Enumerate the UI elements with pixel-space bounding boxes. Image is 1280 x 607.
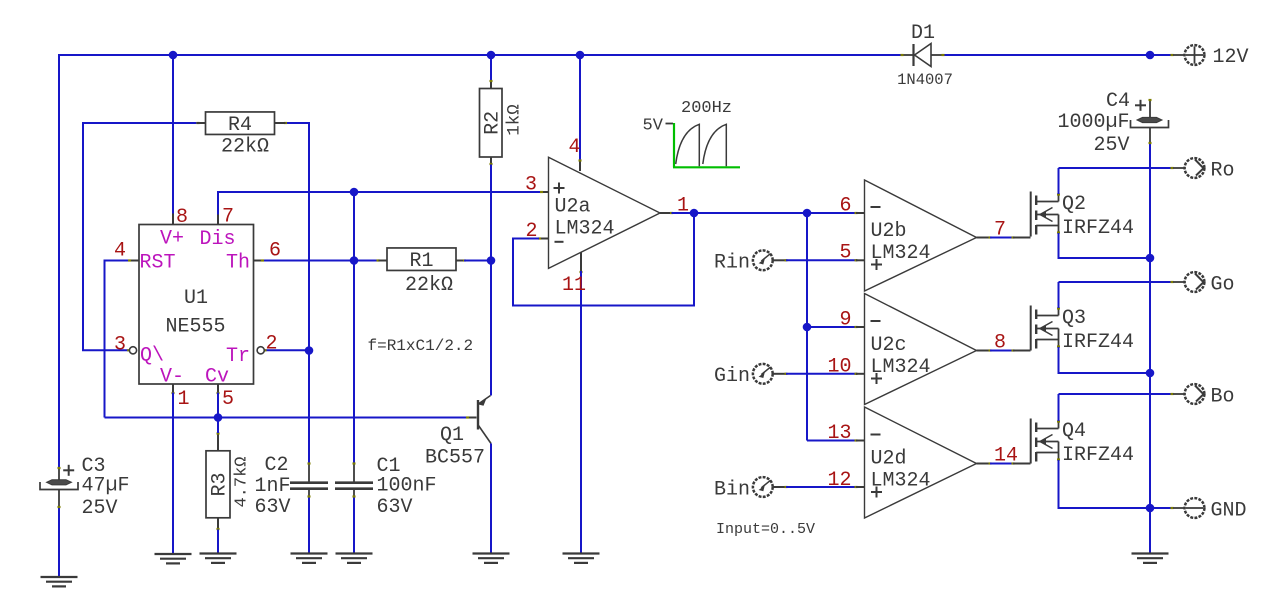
value label 1000uF xyxy=(1058,111,1130,134)
terminal GND xyxy=(1173,498,1204,518)
svg-text:2: 2 xyxy=(526,220,538,243)
node junction output / inverting bus xyxy=(803,209,812,218)
svg-text:LM324: LM324 xyxy=(555,218,615,241)
svg-text:7: 7 xyxy=(222,206,234,229)
label C4 plus xyxy=(1135,100,1146,111)
pin number 6 xyxy=(269,240,281,263)
svg-text:5V: 5V xyxy=(643,117,664,136)
pin number 5 (U2b+) xyxy=(839,242,851,265)
value label C1 63V xyxy=(377,496,413,519)
node junction Q3 source on rail xyxy=(1146,369,1155,378)
svg-text:4: 4 xyxy=(114,240,126,263)
terminal Go xyxy=(1173,272,1204,292)
wire left supply drop to C3 xyxy=(58,54,60,468)
wire C2 to ground xyxy=(308,497,310,553)
svg-text:Q3: Q3 xyxy=(1062,307,1086,330)
value label R2 1k xyxy=(505,104,525,136)
resistor R2 xyxy=(480,89,505,158)
svg-text:5: 5 xyxy=(222,388,234,411)
label U2b LM324 xyxy=(871,242,931,265)
label 12V xyxy=(1213,46,1249,69)
wire RST pin lead xyxy=(105,259,139,261)
value label 1N4007 xyxy=(897,71,953,89)
op-amp U2c triangle xyxy=(865,294,977,405)
wire Bin to op-amp + input xyxy=(773,486,865,488)
label C3 xyxy=(82,455,106,478)
wire 12V terminal stub xyxy=(1171,54,1174,56)
svg-text:3: 3 xyxy=(525,174,537,197)
wire R2 top from rail xyxy=(490,55,493,89)
value label R3 4.7k xyxy=(233,456,252,507)
svg-text:9: 9 xyxy=(839,309,851,332)
node junction Th / R1 left / C1 xyxy=(350,256,359,265)
wire U2d output to MOSFET gate xyxy=(977,462,1031,464)
svg-text:Dis: Dis xyxy=(200,228,236,251)
value label 1nF xyxy=(255,475,291,498)
value label R1 22k xyxy=(405,274,453,297)
resistor R3 xyxy=(206,418,232,553)
pin number 14 (U2d out) xyxy=(994,445,1018,468)
svg-text:1: 1 xyxy=(677,195,689,218)
label Q1 xyxy=(440,424,464,447)
node junction C4 branch on 12V rail xyxy=(1146,51,1155,60)
svg-text:63V: 63V xyxy=(255,496,291,519)
wire U2a pin11 to ground xyxy=(580,253,583,554)
pin name Q-bar xyxy=(140,344,164,367)
svg-text:Gin: Gin xyxy=(714,365,750,388)
IC U1 NE555 body xyxy=(139,225,254,385)
terminal Bin xyxy=(753,477,773,497)
pin number 4 (U2a V+) xyxy=(569,136,581,159)
label U2d xyxy=(871,448,907,471)
wire U2a pin2 lead xyxy=(538,237,548,239)
svg-text:C2: C2 xyxy=(265,454,289,477)
wire emitter node down to Q1 xyxy=(490,261,492,396)
resistor R1 xyxy=(387,248,456,273)
capacitor C4 1000uF xyxy=(1131,99,1169,144)
terminal Rin xyxy=(753,250,773,270)
pin number 8 (U2c out) xyxy=(994,332,1006,355)
wire R4 right to Tr node xyxy=(284,122,309,351)
label NE555 xyxy=(165,316,225,339)
svg-text:Q2: Q2 xyxy=(1062,193,1086,216)
svg-text:3: 3 xyxy=(114,334,126,357)
label U2c xyxy=(871,334,907,357)
wire C1 to ground xyxy=(353,497,355,553)
wire pin5 Cv to control row xyxy=(217,384,220,418)
wire Gin to op-amp + input xyxy=(773,373,865,375)
label Q2 xyxy=(1062,193,1086,216)
svg-text:63V: 63V xyxy=(377,496,413,519)
svg-text:200Hz: 200Hz xyxy=(681,99,732,118)
node junction R1 right / R2 / Q1 emitter xyxy=(487,256,496,265)
wire Q3 source xyxy=(1057,340,1150,374)
value label R4 22k xyxy=(221,136,269,159)
node junction Q2 source on rail xyxy=(1146,254,1155,263)
pin number 5 xyxy=(222,388,234,411)
svg-text:25V: 25V xyxy=(1094,134,1130,157)
op-amp U2b plus sign xyxy=(871,259,882,270)
svg-text:GND: GND xyxy=(1211,500,1247,523)
pin name V+ xyxy=(160,227,184,250)
svg-text:6: 6 xyxy=(839,195,851,218)
svg-text:Go: Go xyxy=(1211,274,1235,297)
svg-text:BC557: BC557 xyxy=(425,447,485,470)
wire R1 left lead xyxy=(379,260,387,262)
value label 47uF xyxy=(82,475,130,498)
wire pin8 V+ from rail xyxy=(172,55,174,224)
svg-text:22kΩ: 22kΩ xyxy=(405,274,453,297)
svg-text:Q4: Q4 xyxy=(1062,420,1086,443)
node junction Q4 source / GND terminal xyxy=(1146,504,1155,513)
label Q3 xyxy=(1062,307,1086,330)
pin circle Q-bar output xyxy=(129,347,136,354)
svg-text:U2a: U2a xyxy=(555,196,591,219)
svg-text:U2d: U2d xyxy=(871,448,907,471)
wire ground rail C4 to GND xyxy=(1149,143,1151,553)
terminal Ro xyxy=(1173,158,1204,178)
svg-text:Bin: Bin xyxy=(714,479,750,502)
wire Q4 drain xyxy=(1057,394,1060,429)
transistor Q1 BC557 xyxy=(478,396,492,444)
pin circle Tr input xyxy=(257,347,264,354)
svg-text:R3: R3 xyxy=(209,472,232,496)
op-amp U2a plus sign xyxy=(554,183,565,194)
pin name V- xyxy=(160,365,184,388)
ground under U1 pin1 xyxy=(155,554,192,563)
wire Q4 source xyxy=(1057,453,1150,509)
node junction bus to pin9 xyxy=(803,323,812,332)
pin number 9 (U2c-) xyxy=(839,309,851,332)
wire R4 left to Q-bar feedback xyxy=(83,122,200,352)
node junction U2a pin4 branch on 12V rail xyxy=(576,51,585,60)
node junction pin8 branch on 12V rail xyxy=(169,51,178,60)
svg-text:IRFZ44: IRFZ44 xyxy=(1062,217,1134,240)
wire Q3 drain xyxy=(1057,282,1060,316)
svg-text:Tr: Tr xyxy=(226,345,250,368)
node junction Tr / R4 / C2 xyxy=(305,346,314,355)
wire Q2 source xyxy=(1057,226,1150,259)
pin name Th xyxy=(226,251,250,274)
wire C1 branch down xyxy=(353,261,355,464)
wire U2b output to MOSFET gate xyxy=(977,236,1031,238)
wire U2c output to MOSFET gate xyxy=(977,349,1031,351)
capacitor C1 100nF xyxy=(335,462,373,497)
wire Q1 collector to ground xyxy=(490,444,492,554)
capacitor C3 47uF xyxy=(40,467,78,508)
op-amp U2b minus sign xyxy=(871,206,881,208)
node junction R2 branch on 12V rail xyxy=(487,51,496,60)
pin number 1 (U2a out) xyxy=(677,195,689,218)
label U2a xyxy=(555,196,591,219)
value label C2 63V xyxy=(255,496,291,519)
label Gin xyxy=(714,365,750,388)
pin number 4 xyxy=(114,240,126,263)
resistor R4 xyxy=(197,112,286,137)
value label 100nF xyxy=(377,475,437,498)
pin name Tr xyxy=(226,345,250,368)
label Rin xyxy=(714,252,750,275)
wire RST down to control row xyxy=(104,260,106,418)
wire C3 to ground xyxy=(58,508,60,577)
svg-text:6: 6 xyxy=(269,240,281,263)
note input range xyxy=(716,521,815,538)
pin number 7 (U2b out) xyxy=(994,219,1006,242)
svg-text:1nF: 1nF xyxy=(255,475,291,498)
op-amp U2d minus sign xyxy=(871,434,881,436)
wire Ro row xyxy=(1059,167,1174,169)
wire U2a pin4 from rail xyxy=(579,55,582,171)
ground under C2 xyxy=(291,554,328,563)
wire top 12V rail left of D1 xyxy=(59,54,901,56)
svg-text:U1: U1 xyxy=(184,287,208,310)
svg-text:Input=0..5V: Input=0..5V xyxy=(716,521,815,538)
svg-text:RST: RST xyxy=(140,251,176,274)
label D1 xyxy=(911,22,935,45)
pin number 3 xyxy=(114,334,126,357)
pin number 8 xyxy=(176,206,188,229)
wire pin1 V- to ground xyxy=(172,384,175,553)
label U1 xyxy=(184,287,208,310)
pin number 2 (Tr) xyxy=(266,333,278,356)
wire bus to U2d pin13 xyxy=(807,439,864,441)
svg-text:Bo: Bo xyxy=(1211,386,1235,409)
wire branch Dis row to Th row xyxy=(353,192,355,261)
svg-text:R2: R2 xyxy=(482,111,505,135)
waveform axis xyxy=(666,123,741,167)
svg-text:LM324: LM324 xyxy=(871,356,931,379)
label C2 xyxy=(265,454,289,477)
svg-text:1N4007: 1N4007 xyxy=(897,71,953,89)
pin number 6 (U2b-) xyxy=(839,195,851,218)
terminal Bo xyxy=(1173,384,1204,404)
svg-text:2: 2 xyxy=(266,333,278,356)
label U2b xyxy=(871,220,907,243)
terminal Gin xyxy=(753,364,773,384)
wire Bo row xyxy=(1059,393,1174,395)
label BC557 xyxy=(425,447,485,470)
node junction Dis row to R1 branch xyxy=(350,188,359,197)
ground under R3 xyxy=(200,554,237,563)
label C1 xyxy=(377,455,401,478)
svg-text:47µF: 47µF xyxy=(82,475,130,498)
wire U2a output xyxy=(660,212,864,214)
waveform sawtooth xyxy=(676,124,727,166)
op-amp U2d triangle xyxy=(865,407,977,518)
pin number 7 xyxy=(222,206,234,229)
op-amp U2c plus sign xyxy=(871,373,882,384)
svg-text:10: 10 xyxy=(827,356,851,379)
svg-text:D1: D1 xyxy=(911,22,935,45)
transistor Q2 IRFZ44 symbol xyxy=(1031,192,1059,237)
svg-text:R1: R1 xyxy=(409,250,433,273)
label 5V xyxy=(643,117,664,136)
svg-text:IRFZ44: IRFZ44 xyxy=(1062,331,1134,354)
pin number 10 (U2c+) xyxy=(827,356,851,379)
svg-text:Q1: Q1 xyxy=(440,424,464,447)
svg-text:1kΩ: 1kΩ xyxy=(505,104,525,136)
diode D1 1N4007 xyxy=(901,44,945,67)
wire Tr node down to C2 xyxy=(308,351,310,464)
ground under U2a pin11 xyxy=(563,554,600,563)
wire pin7 Dis up and right to U2a pin3 xyxy=(218,191,548,224)
svg-text:f=R1xC1/2.2: f=R1xC1/2.2 xyxy=(368,337,474,355)
svg-text:12: 12 xyxy=(827,469,851,492)
wire control row RST-Cv-Q1 base xyxy=(105,416,477,418)
wire R2 bottom to emitter node xyxy=(490,157,493,261)
wire inverting input bus down xyxy=(806,213,808,441)
wire top 12V rail right of D1 xyxy=(944,54,1172,56)
label Bin xyxy=(714,479,750,502)
svg-text:13: 13 xyxy=(827,422,851,445)
svg-text:4.7kΩ: 4.7kΩ xyxy=(233,456,252,507)
pin number 13 (U2d-) xyxy=(827,422,851,445)
wire Th pin6 to R1 left xyxy=(254,259,380,261)
svg-text:U2b: U2b xyxy=(871,220,907,243)
value label C4 25V xyxy=(1094,134,1130,157)
wire Q2 drain xyxy=(1057,168,1060,202)
svg-text:12V: 12V xyxy=(1213,46,1249,69)
op-amp U2c minus sign xyxy=(871,320,881,322)
svg-text:R4: R4 xyxy=(228,114,252,137)
svg-text:U2c: U2c xyxy=(871,334,907,357)
svg-text:LM324: LM324 xyxy=(871,242,931,265)
pin number 1 xyxy=(178,388,190,411)
label C4 xyxy=(1106,90,1130,113)
wire bus to U2c pin9 xyxy=(807,326,864,328)
pin number 3 (U2a+) xyxy=(525,174,537,197)
op-amp U2a minus sign xyxy=(555,241,564,243)
pin number 2 (U2a-) xyxy=(526,220,538,243)
terminal 12V xyxy=(1173,45,1204,65)
svg-text:Ro: Ro xyxy=(1211,160,1235,183)
label Q4 IRFZ44 xyxy=(1062,444,1134,467)
svg-text:8: 8 xyxy=(176,206,188,229)
transistor Q4 IRFZ44 symbol xyxy=(1031,419,1059,464)
svg-text:5: 5 xyxy=(839,242,851,265)
value label C3 25V xyxy=(82,497,118,520)
pin number 12 (U2d+) xyxy=(827,469,851,492)
pin name RST xyxy=(140,251,176,274)
label U2d LM324 xyxy=(871,470,931,493)
wire Go row xyxy=(1059,281,1174,283)
svg-text:V+: V+ xyxy=(160,227,184,250)
svg-text:C4: C4 xyxy=(1106,90,1130,113)
label GND xyxy=(1211,500,1247,523)
svg-text:IRFZ44: IRFZ44 xyxy=(1062,444,1134,467)
note formula xyxy=(368,337,474,355)
op-amp U2d plus sign xyxy=(871,487,882,498)
pin name Cv xyxy=(205,365,229,388)
wire Rin to op-amp + input xyxy=(773,259,865,261)
op-amp U2a triangle xyxy=(549,157,661,268)
svg-text:1000µF: 1000µF xyxy=(1058,111,1130,134)
svg-text:Q\: Q\ xyxy=(140,344,164,367)
pin number 11 (U2a V-) xyxy=(562,274,586,297)
wire GND terminal stub xyxy=(1150,507,1174,509)
ground under C1 xyxy=(336,554,373,563)
wire Tr pin to node xyxy=(264,349,310,351)
label Ro xyxy=(1211,160,1235,183)
label Bo xyxy=(1211,386,1235,409)
ground under Q1 xyxy=(473,554,510,563)
svg-text:NE555: NE555 xyxy=(165,316,225,339)
node junction output / feedback xyxy=(690,209,699,218)
label C3 plus xyxy=(63,465,74,476)
op-amp U2b triangle xyxy=(865,180,977,291)
ground under C3 xyxy=(41,577,78,586)
label U2c LM324 xyxy=(871,356,931,379)
label Q4 xyxy=(1062,420,1086,443)
pin name Dis xyxy=(200,228,236,251)
label Q2 IRFZ44 xyxy=(1062,217,1134,240)
wire R1 right lead xyxy=(457,259,492,261)
ground under GND rail xyxy=(1132,554,1169,563)
svg-text:25V: 25V xyxy=(82,497,118,520)
svg-text:11: 11 xyxy=(562,274,586,297)
svg-text:1: 1 xyxy=(178,388,190,411)
transistor Q3 IRFZ44 symbol xyxy=(1031,306,1059,351)
svg-text:4: 4 xyxy=(569,136,581,159)
svg-text:22kΩ: 22kΩ xyxy=(221,136,269,159)
capacitor C2 1nF xyxy=(290,462,328,497)
svg-text:Th: Th xyxy=(226,251,250,274)
wire U2a feedback loop pin1 to pin2 xyxy=(513,213,694,306)
svg-text:LM324: LM324 xyxy=(871,470,931,493)
svg-text:Rin: Rin xyxy=(714,252,750,275)
label Go xyxy=(1211,274,1235,297)
label U2a LM324 xyxy=(555,218,615,241)
label 200Hz xyxy=(681,99,732,118)
node junction Cv / R3 on control row xyxy=(214,413,223,422)
label Q3 IRFZ44 xyxy=(1062,331,1134,354)
svg-text:100nF: 100nF xyxy=(377,475,437,498)
